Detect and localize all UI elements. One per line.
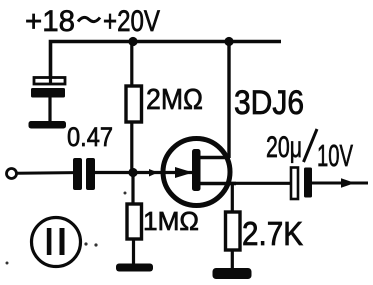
node junction 2M branch xyxy=(128,37,137,46)
ground under R3 xyxy=(213,268,252,279)
resistor R3 2.7K xyxy=(226,212,241,269)
resistor R1 2MΩ xyxy=(126,86,142,122)
svg-text:0.47: 0.47 xyxy=(67,122,113,152)
terminal input xyxy=(7,169,17,179)
svg-text:10V: 10V xyxy=(317,138,353,173)
wire output with arrow xyxy=(312,178,368,187)
svg-text:3DJ6: 3DJ6 xyxy=(234,84,304,122)
svg-text:2MΩ: 2MΩ xyxy=(146,84,203,116)
svg-text:+18: +18 xyxy=(25,5,75,38)
ground under C1 xyxy=(29,121,67,129)
node junction gate divider xyxy=(128,168,137,177)
wire source to R3 xyxy=(231,184,234,214)
wire source horizontal xyxy=(230,182,291,185)
wire input xyxy=(17,171,75,175)
capacitor C1 supply filter electrolytic xyxy=(31,76,65,122)
resistor R2 1MΩ xyxy=(127,204,142,264)
ground under R2 xyxy=(116,264,153,272)
wire divider vertical xyxy=(130,42,133,88)
label +18~+20V supply voltage xyxy=(25,5,160,38)
capacitor C3 20μ/10V output electrolytic xyxy=(291,168,312,200)
wire top supply rail xyxy=(51,42,282,85)
svg-text:20μ: 20μ xyxy=(266,131,302,164)
wire gate xyxy=(95,171,193,174)
wire drain vertical xyxy=(227,42,230,159)
speck noise xyxy=(84,242,87,245)
capacitor C2 0.47 coupling xyxy=(73,158,95,190)
transistor V 3DJ6 JFET xyxy=(149,139,236,206)
svg-text:2.7K: 2.7K xyxy=(242,215,303,252)
label 20μ/10V xyxy=(266,129,353,173)
svg-text:+20V: +20V xyxy=(103,5,160,38)
figure number 11 circled xyxy=(32,218,81,267)
svg-text:1MΩ: 1MΩ xyxy=(143,206,199,236)
node junction drain branch xyxy=(224,37,233,46)
